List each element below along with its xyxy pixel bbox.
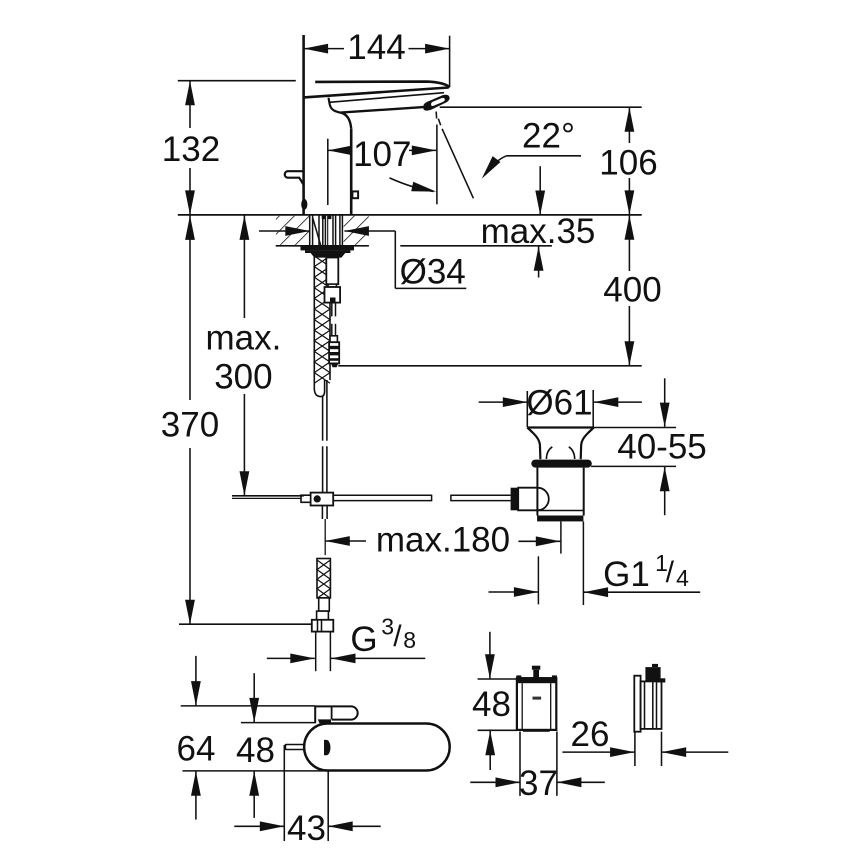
rotation arc arrow under spout: [390, 178, 438, 196]
svg-text:max.35: max.35: [481, 212, 596, 251]
svg-text:48: 48: [236, 731, 275, 770]
label diameter 34 with leader: [259, 226, 466, 292]
dimension 37: [470, 732, 605, 804]
faucet body outline: [304, 35, 450, 215]
dimension max.180: [325, 521, 560, 560]
svg-text:Ø34: Ø34: [400, 253, 466, 292]
dimension 106: [440, 107, 658, 215]
svg-text:G1: G1: [603, 555, 650, 594]
svg-text:22°: 22°: [522, 116, 575, 155]
dimension 64: [177, 656, 315, 820]
svg-text:/: /: [666, 556, 675, 589]
tee fitting: [232, 493, 333, 555]
lever handle on faucet back: [285, 171, 308, 210]
dimension diameter 61: [479, 383, 642, 427]
countertop slab with hatching: [178, 215, 642, 246]
label G 3/8 with arrows: [267, 614, 426, 664]
dimension 370: [161, 215, 333, 624]
dimension 48 (front view): [472, 632, 517, 770]
sensor beam vertical dashed line: [435, 112, 438, 205]
sensor cable connectors below shank: [325, 258, 341, 368]
sensor window on faucet front: [352, 191, 358, 198]
control unit pill body: [286, 724, 450, 771]
svg-text:370: 370: [161, 406, 219, 445]
aerator at spout tip: [423, 95, 449, 111]
svg-text:37: 37: [519, 764, 558, 803]
svg-text:max.180: max.180: [376, 521, 510, 560]
svg-text:max.: max.: [205, 319, 281, 358]
horizontal outlet pipe from tee: [333, 488, 549, 511]
svg-text:Ø61: Ø61: [526, 383, 592, 422]
svg-text:132: 132: [162, 130, 220, 169]
svg-text:48: 48: [472, 685, 511, 724]
dimension 107: [328, 135, 437, 205]
svg-text:107: 107: [353, 135, 411, 174]
dimension 43: [234, 745, 380, 848]
svg-text:400: 400: [603, 271, 661, 310]
dimension max.300: [205, 215, 303, 495]
svg-text:26: 26: [571, 715, 610, 754]
svg-text:40-55: 40-55: [617, 428, 707, 467]
label 22 degrees with leader: [478, 116, 581, 181]
braided supply hose (upper): [314, 253, 330, 397]
lower braided hose segment: [312, 559, 334, 672]
clip on control unit: [315, 706, 357, 723]
faucet shank through countertop: [310, 215, 343, 245]
power unit side view: [634, 664, 665, 732]
svg-text:/: /: [393, 620, 402, 653]
svg-text:64: 64: [177, 729, 216, 768]
power unit front view box: [516, 666, 557, 732]
thin hose from braid to tee: [323, 380, 327, 493]
svg-text:8: 8: [403, 627, 416, 653]
dimension 144: [304, 28, 450, 87]
label G1 1/4 with arrows: [489, 550, 701, 597]
dimension 40-55: [591, 378, 707, 515]
dimension 48 (side view): [183, 673, 328, 818]
svg-text:4: 4: [676, 565, 689, 591]
svg-text:106: 106: [599, 143, 657, 182]
svg-text:144: 144: [347, 28, 405, 67]
dimension 132: [162, 81, 296, 215]
svg-text:300: 300: [214, 357, 272, 396]
mounting flange under counter: [301, 246, 355, 258]
pop-up waste valve body: [527, 428, 594, 522]
svg-text:G: G: [350, 620, 377, 659]
dimension 26: [562, 715, 728, 766]
svg-text:3: 3: [381, 614, 394, 640]
dimension 400: [338, 215, 661, 366]
svg-text:43: 43: [287, 809, 326, 848]
drain tailpipe: [538, 521, 583, 605]
dimension max.35: [481, 166, 596, 277]
22 deg spray axis slanted line: [438, 119, 473, 199]
